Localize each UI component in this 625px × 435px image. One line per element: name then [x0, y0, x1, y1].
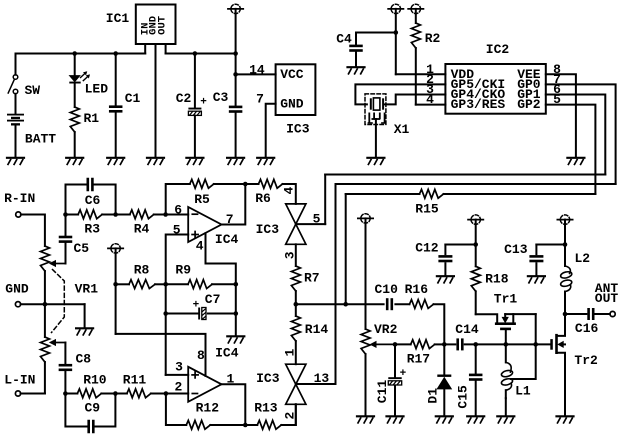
svg-text:5: 5 [313, 212, 321, 227]
svg-text:R15: R15 [415, 202, 439, 217]
svg-text:GND: GND [280, 96, 304, 111]
svg-text:C6: C6 [85, 193, 101, 208]
svg-text:R17: R17 [407, 352, 430, 367]
svg-text:L2: L2 [574, 251, 590, 266]
svg-text:R14: R14 [305, 322, 329, 337]
svg-text:IC1: IC1 [106, 11, 130, 26]
svg-text:IC2: IC2 [486, 42, 510, 57]
svg-text:L1: L1 [515, 384, 531, 399]
svg-text:4: 4 [282, 187, 297, 195]
svg-text:C5: C5 [73, 241, 89, 256]
svg-text:C8: C8 [75, 352, 91, 367]
svg-text:Tr1: Tr1 [494, 292, 518, 307]
svg-text:R11: R11 [123, 372, 147, 387]
svg-text:3: 3 [283, 251, 298, 259]
svg-text:C13: C13 [504, 242, 528, 257]
svg-text:+: + [193, 299, 200, 311]
svg-text:L-IN: L-IN [4, 372, 35, 387]
svg-text:8: 8 [197, 348, 205, 363]
svg-text:R5: R5 [194, 192, 210, 207]
svg-text:5: 5 [173, 222, 181, 237]
svg-text:R18: R18 [485, 271, 509, 286]
svg-text:IC3: IC3 [256, 222, 280, 237]
svg-text:SW: SW [24, 83, 40, 98]
svg-text:R6: R6 [255, 191, 271, 206]
svg-text:2: 2 [282, 412, 297, 420]
svg-text:R3: R3 [84, 222, 100, 237]
svg-text:GP2: GP2 [517, 97, 541, 112]
svg-text:IC4: IC4 [215, 345, 239, 360]
svg-text:LED: LED [85, 82, 109, 97]
svg-text:5: 5 [553, 92, 561, 107]
svg-text:VR1: VR1 [75, 282, 99, 297]
svg-text:X1: X1 [394, 122, 410, 137]
svg-text:14: 14 [249, 63, 265, 78]
svg-text:GP3/RES: GP3/RES [451, 97, 506, 112]
svg-text:C15: C15 [456, 385, 471, 409]
svg-text:R7: R7 [304, 270, 320, 285]
svg-text:R13: R13 [254, 401, 278, 416]
svg-text:C9: C9 [84, 401, 100, 416]
svg-text:C11: C11 [375, 380, 390, 404]
svg-text:1: 1 [226, 372, 234, 387]
svg-text:C10: C10 [374, 282, 398, 297]
svg-text:Tr2: Tr2 [574, 353, 598, 368]
svg-text:C2: C2 [176, 91, 192, 106]
svg-text:R2: R2 [425, 31, 441, 46]
svg-text:3: 3 [175, 359, 183, 374]
svg-text:13: 13 [314, 371, 330, 386]
svg-text:R10: R10 [83, 372, 107, 387]
svg-text:C4: C4 [336, 32, 352, 47]
svg-text:1: 1 [282, 349, 297, 357]
svg-text:+: + [200, 97, 207, 109]
svg-text:D1: D1 [425, 388, 440, 404]
svg-text:OUT: OUT [595, 291, 619, 306]
svg-text:+: + [400, 368, 407, 380]
svg-text:R4: R4 [134, 222, 150, 237]
svg-text:GND: GND [5, 282, 29, 297]
svg-text:C16: C16 [575, 321, 599, 336]
svg-text:C14: C14 [455, 322, 479, 337]
svg-text:R9: R9 [175, 262, 191, 277]
svg-text:7: 7 [256, 92, 264, 107]
svg-text:6: 6 [174, 202, 182, 217]
svg-text:R8: R8 [134, 262, 150, 277]
svg-text:OUT: OUT [156, 16, 168, 35]
svg-text:IC3: IC3 [256, 371, 280, 386]
svg-text:VCC: VCC [280, 67, 304, 82]
svg-text:IC3: IC3 [286, 122, 310, 137]
svg-text:C7: C7 [205, 292, 221, 307]
svg-text:2: 2 [174, 379, 182, 394]
svg-text:7: 7 [226, 212, 234, 227]
svg-text:C1: C1 [125, 91, 141, 106]
svg-text:4: 4 [426, 92, 434, 107]
svg-text:R-IN: R-IN [4, 191, 35, 206]
svg-text:R1: R1 [83, 111, 99, 126]
svg-text:R16: R16 [405, 282, 429, 297]
svg-text:R12: R12 [196, 401, 220, 416]
svg-text:C12: C12 [415, 241, 439, 256]
svg-text:C3: C3 [213, 90, 229, 105]
svg-text:4: 4 [196, 239, 204, 254]
svg-text:IC4: IC4 [215, 232, 239, 247]
svg-text:VR2: VR2 [374, 322, 398, 337]
svg-text:BATT: BATT [25, 132, 56, 147]
